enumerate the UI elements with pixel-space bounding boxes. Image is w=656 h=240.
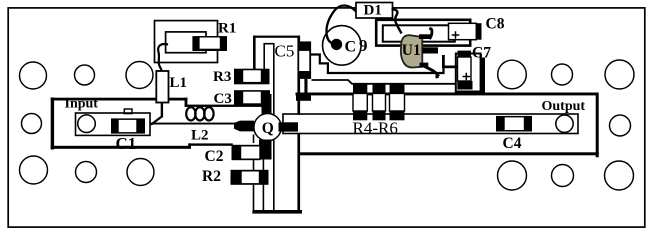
- diode D1: [356, 3, 393, 19]
- svg-text:Q: Q: [262, 120, 274, 137]
- hole top-left 3: [126, 62, 153, 89]
- diode D1 wire left: [326, 5, 357, 44]
- svg-text:C2: C2: [205, 148, 224, 165]
- capacitor C3: [234, 90, 270, 106]
- resistor R1 outer box: [155, 21, 218, 63]
- input pad hole: [78, 115, 96, 133]
- hole bottom-right 3: [605, 161, 634, 190]
- capacitor C9: [323, 26, 362, 66]
- center column right thick wire upper: [297, 36, 300, 115]
- regulator box inner: [383, 25, 455, 41]
- IC U1 middle lead wire: [422, 47, 438, 53]
- resistor R6: [390, 84, 405, 94]
- wire staircase from C5: [311, 55, 458, 74]
- hole bottom-left 2: [76, 162, 97, 183]
- input channel bottom wire right part: [188, 143, 233, 145]
- svg-text:R3: R3: [213, 69, 231, 85]
- inductor L2 coil: [186, 107, 195, 120]
- notch above C1: [124, 109, 132, 114]
- wire C7 to bus: [481, 58, 485, 95]
- center column right thick wire lower: [297, 133, 300, 214]
- input channel bottom step wire: [188, 143, 191, 148]
- wire ticks above C2: [253, 135, 255, 144]
- transistor Q wedge wire: [234, 121, 254, 132]
- capacitor C8 plus: [452, 31, 460, 39]
- capacitor C4: [496, 116, 532, 132]
- output strip: [283, 114, 578, 134]
- resistor R3: [234, 69, 270, 85]
- input channel top wire right of L1: [168, 98, 187, 101]
- capacitor C9 dot: [331, 39, 342, 50]
- input pad box: [76, 113, 151, 135]
- IC U1: [401, 35, 422, 67]
- hole bottom-right 2: [552, 165, 574, 187]
- center column long thin wire: [273, 43, 275, 210]
- svg-text:C: C: [345, 39, 357, 56]
- wire C5 to bus: [304, 79, 307, 93]
- wire diagonal to pad box: [151, 117, 162, 125]
- svg-text:D1: D1: [364, 3, 382, 19]
- right region right edge wire: [596, 93, 599, 158]
- input channel left edge wire: [51, 98, 54, 150]
- output pad hole: [556, 115, 573, 132]
- wire R1 to L1: [158, 44, 168, 71]
- transistor Q right pad: [279, 122, 299, 131]
- input channel bottom wire: [51, 146, 190, 149]
- hole top-right 3: [605, 60, 634, 89]
- svg-text:L2: L2: [191, 127, 209, 143]
- capacitor C8: [449, 23, 477, 39]
- transistor Q: [254, 114, 281, 141]
- center column thick left wire: [253, 36, 256, 70]
- capacitor C7: [458, 51, 472, 57]
- hole top-right 1: [498, 60, 527, 89]
- svg-text:C4: C4: [503, 135, 522, 152]
- transistor Q bottom pad: [259, 140, 271, 152]
- svg-text:C1: C1: [116, 134, 137, 153]
- hole bottom-left 3: [127, 159, 154, 186]
- input channel step down wire: [185, 98, 188, 107]
- regulator box outer: [376, 20, 470, 46]
- hole top-left 2: [75, 65, 95, 85]
- wires below R2: [253, 184, 255, 210]
- resistor R1 inner box: [166, 32, 206, 53]
- hole top-right 2: [552, 64, 573, 85]
- svg-text:L1: L1: [170, 75, 188, 91]
- right region bottom wire: [299, 152, 599, 155]
- hole bottom-right 1: [498, 161, 527, 190]
- svg-text:R4-R6: R4-R6: [353, 118, 398, 137]
- resistor R1: [192, 36, 227, 51]
- svg-text:C3: C3: [214, 91, 232, 107]
- IC U1 flag wire: [429, 28, 432, 39]
- wire L1 lead down: [161, 102, 163, 118]
- capacitor C7 plus: [463, 73, 471, 81]
- IC U1 top bar wire: [419, 34, 431, 39]
- capacitor C1: [111, 118, 145, 133]
- diode D1 wire right: [392, 9, 402, 33]
- svg-text:R2: R2: [202, 168, 221, 185]
- hole mid-right: [610, 115, 631, 136]
- svg-text:R1: R1: [218, 21, 236, 37]
- inductor L1: [156, 71, 168, 103]
- center column thin rect wire: [264, 44, 274, 70]
- hole mid-left: [22, 114, 42, 134]
- svg-text:C5: C5: [275, 42, 295, 61]
- center column bottom cap wire: [252, 210, 302, 214]
- IC U1 bottom wire: [420, 63, 429, 68]
- svg-text:C8: C8: [486, 16, 505, 33]
- resistor R5: [373, 84, 386, 94]
- svg-text:Output: Output: [542, 99, 586, 114]
- capacitor C5: [298, 41, 311, 79]
- wire pad box to Q: [150, 123, 235, 125]
- capacitor C2: [232, 145, 261, 160]
- hole top-left 1: [20, 62, 47, 89]
- svg-text:Input: Input: [65, 97, 99, 112]
- power bus top wire: [296, 93, 599, 96]
- wire C7 left step: [442, 66, 458, 69]
- junction pad C5 bus: [296, 93, 311, 101]
- capacitor C7 box: [456, 54, 481, 92]
- resistor R2: [231, 170, 269, 185]
- center column thick cap wire: [253, 36, 300, 38]
- svg-text:9: 9: [359, 36, 368, 55]
- svg-text:U1: U1: [402, 42, 421, 59]
- input channel top wire: [51, 98, 157, 101]
- resistor R4: [353, 84, 367, 94]
- wire ticks C2 to R2: [253, 160, 255, 171]
- transistor Q top pad: [262, 94, 272, 114]
- wire C5 lower branch: [312, 80, 457, 84]
- hole bottom-left 1: [20, 156, 48, 184]
- input channel mid wire to Q bar: [185, 105, 264, 107]
